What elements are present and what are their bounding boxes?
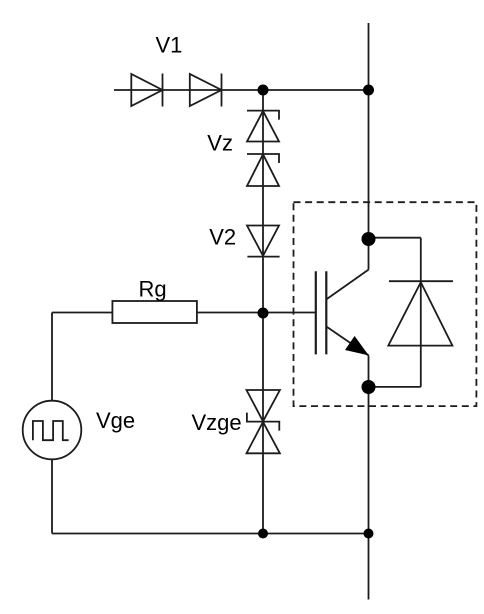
diode V2 [247,226,280,257]
diode V1b [190,74,222,107]
resistor Rg [112,301,196,323]
wire middle branch vertical [262,90,264,534]
IGBT gate bar [315,271,317,354]
node top right [363,85,374,96]
dashed module box [294,202,477,406]
freewheel diode [388,281,453,345]
wire bottom horizontal [52,533,369,535]
wire diode top [369,237,421,239]
IGBT collector lead [326,270,368,300]
node bottom middle [258,529,268,539]
wire diode vertical [420,238,422,387]
zener Vzge bidirectional [247,390,280,453]
zener Vz upper [247,111,279,142]
wire top horizontal [114,89,369,91]
IGBT body bar [325,271,327,354]
svg-text:Vge: Vge [96,408,135,433]
node top middle [258,85,269,96]
IGBT emitter arrow [345,336,369,355]
svg-text:Vz: Vz [207,130,233,155]
wire main vertical upper (collector rail) [368,23,370,270]
node collector [362,232,376,246]
wire gate lead [263,312,316,314]
wire main vertical lower (emitter rail) [368,356,370,600]
node bottom right [364,529,374,539]
wire Rg right to gate node [197,312,263,314]
source Vge [23,401,82,460]
wire Rg left [52,312,112,314]
svg-text:Rg: Rg [139,277,167,302]
wire diode bottom [369,386,421,388]
diode V1a [131,74,162,107]
node gate [258,308,269,319]
svg-text:V2: V2 [209,225,236,250]
zener Vz lower [247,154,279,186]
svg-text:Vzge: Vzge [192,410,242,435]
IGBT emitter lead [326,327,368,356]
svg-text:V1: V1 [156,33,183,58]
node emitter [362,380,376,394]
wire left branch vertical [51,313,53,534]
